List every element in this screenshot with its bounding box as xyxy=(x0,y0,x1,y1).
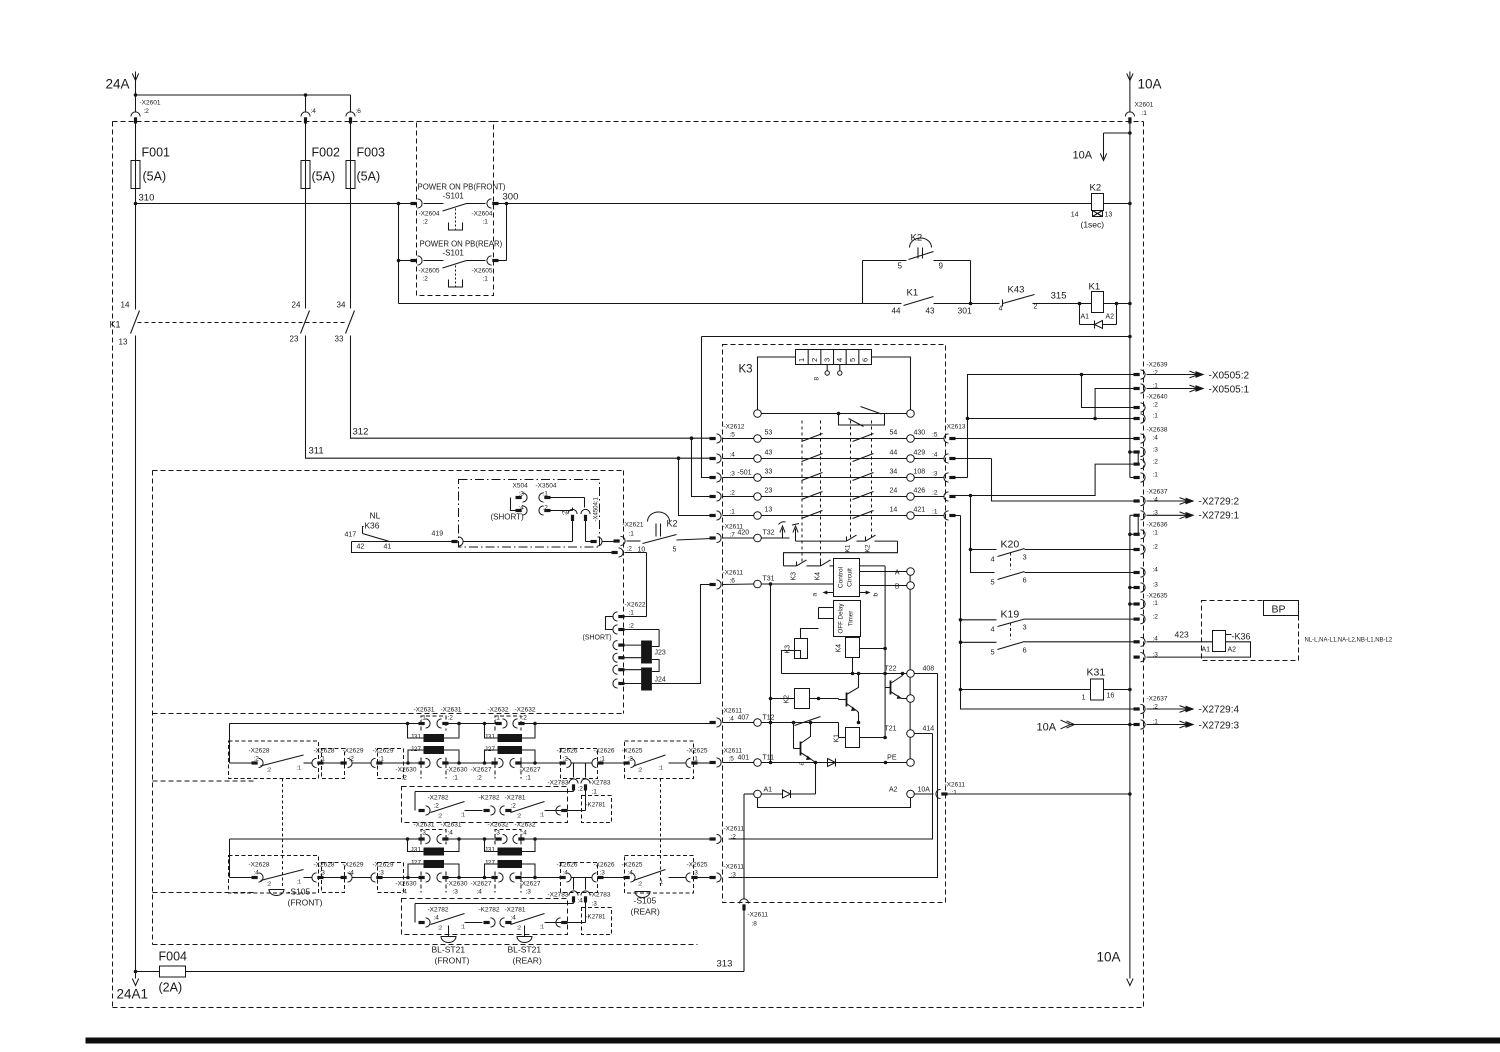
wire interlock feed upper xyxy=(415,764,583,811)
svg-text:PE: PE xyxy=(887,755,897,762)
svg-text:(1sec): (1sec) xyxy=(1081,220,1105,230)
10A branch arrow xyxy=(1073,131,1132,161)
wire to -X2639:1 / -X2640:1 xyxy=(966,389,1137,421)
svg-text::1: :1 xyxy=(483,219,489,226)
svg-text:3: 3 xyxy=(822,358,831,362)
svg-text:2: 2 xyxy=(1034,304,1038,311)
svg-text:33: 33 xyxy=(765,469,773,476)
svg-text:-X2640: -X2640 xyxy=(1147,394,1168,401)
relay contact K1 14-13 xyxy=(110,204,140,972)
svg-text::4: :4 xyxy=(563,870,569,877)
off delay timer box xyxy=(819,601,861,637)
main right bus lower xyxy=(1129,515,1131,978)
svg-text:420: 420 xyxy=(738,530,750,537)
connector X2601:4 xyxy=(301,95,316,161)
svg-text:6: 6 xyxy=(860,358,869,362)
wire row D rear xyxy=(230,876,712,880)
svg-text::1: :1 xyxy=(461,925,466,931)
svg-text:6: 6 xyxy=(1023,646,1027,655)
contact -X2781 -K2781 lower xyxy=(505,907,612,935)
svg-text::2: :2 xyxy=(434,803,440,810)
svg-text:315: 315 xyxy=(1051,291,1067,302)
terminal T11 wire 401 xyxy=(738,755,907,767)
connector -X4504 pair xyxy=(563,496,600,541)
svg-text::3: :3 xyxy=(379,870,385,877)
K3 terminal strip 1-6 xyxy=(758,350,911,410)
connector -X2611:3 xyxy=(710,864,745,883)
relay contact K20 xyxy=(991,539,1137,587)
svg-text:(FRONT): (FRONT) xyxy=(435,956,470,966)
svg-text:301: 301 xyxy=(958,306,972,316)
relay contact K1 44-43 xyxy=(863,288,1000,316)
svg-text:-X2625: -X2625 xyxy=(687,862,708,869)
wire short plug run xyxy=(452,537,615,546)
connector -X2631:2 xyxy=(437,707,462,729)
connector -X2632:4 xyxy=(513,822,536,844)
connector -X2626:4 xyxy=(557,862,578,883)
svg-text::2: :2 xyxy=(730,490,736,497)
connector X2601:6 xyxy=(346,95,361,161)
svg-text:-X2782: -X2782 xyxy=(428,907,449,914)
svg-text:T21: T21 xyxy=(884,726,896,733)
svg-text:-X2604: -X2604 xyxy=(472,211,493,218)
svg-text:-X2601: -X2601 xyxy=(140,100,161,107)
svg-text::8: :8 xyxy=(752,921,758,928)
svg-text:-X2611: -X2611 xyxy=(724,826,745,833)
svg-text::6: :6 xyxy=(730,578,736,585)
contact -X2782 -K2782 upper xyxy=(419,795,512,820)
svg-text:Timer: Timer xyxy=(848,611,855,627)
relay contact K1 24-23 xyxy=(290,301,310,344)
svg-text:-X2783: -X2783 xyxy=(548,892,569,899)
svg-text:(5A): (5A) xyxy=(312,170,336,184)
svg-text:4: 4 xyxy=(835,358,844,362)
svg-text:T22: T22 xyxy=(884,666,896,673)
svg-text:14: 14 xyxy=(1071,212,1079,219)
svg-text:44: 44 xyxy=(890,450,898,457)
svg-text:-X2613: -X2613 xyxy=(945,424,966,431)
switch -X2625 front xyxy=(622,748,708,774)
svg-text::1: :1 xyxy=(592,789,598,796)
svg-text:5: 5 xyxy=(991,578,995,587)
svg-text::4: :4 xyxy=(511,915,517,922)
connector -X2640:2 xyxy=(1134,394,1168,413)
wire arrow 4 off-sheet xyxy=(792,524,799,542)
connector -X2611:4 xyxy=(710,708,754,728)
svg-text:Control: Control xyxy=(838,566,845,588)
svg-text:33: 33 xyxy=(335,335,344,344)
svg-text::4: :4 xyxy=(1153,497,1159,504)
svg-text:b: b xyxy=(873,593,880,597)
svg-text:6: 6 xyxy=(1023,576,1027,585)
K3 contact 23-24 wire 426 xyxy=(754,488,945,501)
K3 contact 53-54 wire 430 xyxy=(754,430,945,443)
svg-text::1: :1 xyxy=(297,880,302,886)
svg-text:-X2639: -X2639 xyxy=(1147,362,1168,369)
svg-text:A1: A1 xyxy=(764,787,773,794)
svg-text:F002: F002 xyxy=(312,146,341,160)
svg-text::2: :2 xyxy=(1153,402,1159,409)
connector -X2636:2 xyxy=(1134,544,1159,555)
fuse F002 (5A) xyxy=(301,146,340,309)
connector -X2612:2 xyxy=(710,490,754,502)
diode block J27 rear 2 xyxy=(485,860,536,878)
connector pair -X2627 below J rear 2 xyxy=(471,873,541,896)
svg-text:-K2782: -K2782 xyxy=(479,795,500,802)
horn -S105 REAR xyxy=(631,779,661,917)
svg-text::2: :2 xyxy=(517,814,522,820)
connector pair -X2627 below J front 2 xyxy=(471,758,541,781)
svg-text:34: 34 xyxy=(337,301,346,310)
svg-text::4: :4 xyxy=(311,108,317,115)
svg-text:K2: K2 xyxy=(1090,183,1102,194)
svg-text:T11: T11 xyxy=(763,755,775,762)
terminal T22 wire 408 xyxy=(782,666,935,678)
svg-text::3: :3 xyxy=(1153,652,1159,659)
svg-text::2: :2 xyxy=(438,926,443,932)
transistor internal upper xyxy=(885,672,914,703)
svg-text:-X2627: -X2627 xyxy=(471,881,492,888)
svg-text::1: :1 xyxy=(379,756,385,763)
svg-text:(REAR): (REAR) xyxy=(631,907,660,917)
diode block J31 rear 1 xyxy=(408,839,460,856)
pushbutton K2 mushroom xyxy=(638,512,712,554)
svg-text:10A: 10A xyxy=(1037,722,1057,734)
connector -X2639:1 to X0505:1 xyxy=(1134,383,1250,396)
svg-text::2: :2 xyxy=(517,926,522,932)
svg-text:-X2781: -X2781 xyxy=(505,907,526,914)
wire 429 to -X2637:4 xyxy=(955,459,1240,508)
svg-text:-X0505:1: -X0505:1 xyxy=(1209,385,1250,396)
svg-text:417: 417 xyxy=(345,532,357,539)
svg-text:-X2638: -X2638 xyxy=(1147,427,1168,434)
svg-text::2: :2 xyxy=(932,490,938,497)
svg-text:-X2627: -X2627 xyxy=(471,767,492,774)
wire control circuit to B wrap xyxy=(860,566,886,738)
svg-text::1: :1 xyxy=(1153,530,1159,537)
svg-text:K4: K4 xyxy=(815,572,822,581)
svg-text::3: :3 xyxy=(453,889,459,896)
svg-text::2: :2 xyxy=(254,756,260,763)
connector X2601:1 xyxy=(1125,95,1153,124)
svg-text:POWER ON PB(REAR): POWER ON PB(REAR) xyxy=(420,240,503,249)
svg-text::1: :1 xyxy=(730,509,736,516)
svg-text::1: :1 xyxy=(1142,110,1148,117)
inner dashed box 2 xyxy=(153,781,698,945)
connector -X2637:2 to X2729:4 xyxy=(1134,696,1240,716)
svg-text:K19: K19 xyxy=(1001,609,1020,621)
svg-text:24A: 24A xyxy=(106,77,130,92)
dash-dot box short plug xyxy=(459,480,600,548)
connector -X2622:1 xyxy=(606,602,647,630)
connector pair X504:4 X3504:2 xyxy=(511,498,573,516)
relay coil K3 internal xyxy=(782,629,819,674)
fuse F003 (5A) xyxy=(346,146,385,309)
svg-text:13: 13 xyxy=(765,507,773,514)
svg-text:(SHORT): (SHORT) xyxy=(491,513,525,522)
svg-text:A2: A2 xyxy=(1228,647,1237,654)
wire 108 to -X2639:2 xyxy=(955,373,1137,478)
svg-text::4: :4 xyxy=(578,898,584,905)
svg-text:-X2605: -X2605 xyxy=(472,268,493,275)
svg-text::5: :5 xyxy=(729,756,735,763)
svg-text:10A: 10A xyxy=(1073,150,1093,162)
connector -X2636:4 xyxy=(1134,567,1159,578)
dashed box power-on pushbuttons xyxy=(417,122,494,296)
connector -X2612:1 xyxy=(710,509,754,521)
svg-text:-S101: -S101 xyxy=(443,249,465,258)
svg-text::1: :1 xyxy=(932,509,938,516)
svg-text:401: 401 xyxy=(738,755,750,762)
svg-text::2: :2 xyxy=(423,276,429,283)
svg-text::3: :3 xyxy=(592,901,598,908)
svg-text:X504: X504 xyxy=(513,483,529,490)
svg-text:414: 414 xyxy=(923,726,935,733)
fuse F004 (2A) wire 313 xyxy=(134,950,744,995)
svg-text::4: :4 xyxy=(1153,435,1159,442)
transistor internal b xyxy=(839,672,861,725)
bell BL-ST21 FRONT xyxy=(432,926,470,966)
svg-text:-X2631: -X2631 xyxy=(414,822,435,829)
connector -X2628:1 xyxy=(312,748,335,768)
wire top feeder xyxy=(134,93,351,97)
pushbutton -S101 front xyxy=(397,183,507,231)
dashed housing boxes row B xyxy=(229,716,694,779)
svg-text::2: :2 xyxy=(731,834,737,841)
svg-text:24A1: 24A1 xyxy=(117,987,149,1002)
svg-text:-X2631: -X2631 xyxy=(441,822,462,829)
svg-text:T32: T32 xyxy=(763,530,775,537)
svg-text:-X2630: -X2630 xyxy=(396,881,417,888)
wire T22 to X2611:3 xyxy=(729,674,938,878)
svg-text:K1: K1 xyxy=(845,544,852,552)
relay coil K2 (1sec) xyxy=(1071,183,1132,230)
K3 contact 43-44 wire 429 xyxy=(754,450,945,463)
svg-text::4: :4 xyxy=(434,915,440,922)
svg-text:NL: NL xyxy=(370,511,381,521)
fuse F001 (5A) xyxy=(131,146,170,204)
svg-text:10A: 10A xyxy=(1138,77,1162,92)
connector -X2635:1 bus tap xyxy=(1128,593,1168,609)
svg-text::1: :1 xyxy=(952,790,958,797)
svg-text:J31: J31 xyxy=(411,847,422,854)
outer cabinet dashed boundary xyxy=(113,122,1144,1008)
svg-text:-X2630: -X2630 xyxy=(447,881,468,888)
svg-text:-X2630: -X2630 xyxy=(447,767,468,774)
diode block J31 rear 2 xyxy=(485,839,536,856)
svg-text:8: 8 xyxy=(814,377,821,381)
svg-text::2: :2 xyxy=(627,546,633,553)
svg-text::4: :4 xyxy=(522,830,528,837)
control circuit box xyxy=(834,559,860,597)
svg-text:-X2729:1: -X2729:1 xyxy=(1199,511,1240,522)
K3 contact 33-34 wire 108 xyxy=(754,469,945,482)
terminal A xyxy=(860,568,915,577)
svg-text::1: :1 xyxy=(461,813,466,819)
connector -X2626:3 xyxy=(592,862,615,883)
svg-text:POWER ON PB(FRONT): POWER ON PB(FRONT) xyxy=(418,183,506,192)
svg-text:23: 23 xyxy=(765,488,773,495)
svg-text:9: 9 xyxy=(939,262,944,271)
diode block J27 front 2 xyxy=(485,746,536,763)
svg-text::2: :2 xyxy=(267,882,272,888)
svg-text:-X4504:1: -X4504:1 xyxy=(594,496,600,521)
svg-text:1: 1 xyxy=(1082,695,1086,702)
contact -X2782 -K2782 lower xyxy=(419,907,512,932)
svg-text:-X2604: -X2604 xyxy=(419,211,440,218)
svg-text:K3: K3 xyxy=(739,364,753,376)
svg-text:F004: F004 xyxy=(159,950,188,964)
svg-text:-X2612: -X2612 xyxy=(724,424,745,431)
svg-text:K1: K1 xyxy=(907,288,919,299)
svg-text:K1: K1 xyxy=(110,320,121,330)
svg-text::1: :1 xyxy=(1153,413,1159,420)
svg-text:10A: 10A xyxy=(1097,950,1121,965)
connector -X2626:2 xyxy=(557,748,578,768)
svg-text:(SHORT): (SHORT) xyxy=(583,635,612,642)
wire to -X2640:2 xyxy=(1082,375,1137,408)
svg-text:A1: A1 xyxy=(1081,314,1090,321)
connector -X2632:1 xyxy=(488,707,509,729)
svg-text::1: :1 xyxy=(1153,600,1159,607)
connector -X2601:2 xyxy=(131,95,161,161)
contact -X2781 -K2781 upper xyxy=(505,795,612,823)
svg-text:(2A): (2A) xyxy=(159,981,183,995)
svg-text:J27: J27 xyxy=(411,860,422,867)
svg-text:-S105: -S105 xyxy=(634,896,657,906)
relay contact K1 34-33 xyxy=(335,301,355,344)
svg-text::1: :1 xyxy=(1153,472,1159,479)
svg-text::5: :5 xyxy=(932,432,938,439)
svg-text:-X2632: -X2632 xyxy=(488,707,509,714)
svg-text::4: :4 xyxy=(628,870,634,877)
svg-text::2: :2 xyxy=(349,756,355,763)
svg-text:-X2611: -X2611 xyxy=(722,708,743,715)
svg-text:5: 5 xyxy=(848,358,857,362)
svg-text::3: :3 xyxy=(932,471,938,478)
svg-text::1: :1 xyxy=(540,813,545,819)
svg-text:-X2637: -X2637 xyxy=(1147,696,1168,703)
switch K43 xyxy=(999,285,1080,313)
svg-text:A2: A2 xyxy=(889,787,898,794)
svg-text:-X2783: -X2783 xyxy=(590,892,611,899)
svg-text:-X2729:3: -X2729:3 xyxy=(1199,721,1240,732)
wire interlock return lower xyxy=(581,878,611,923)
svg-text:J31: J31 xyxy=(485,847,496,854)
wire 311 xyxy=(306,336,712,516)
svg-text::1: :1 xyxy=(297,766,302,772)
svg-text::4: :4 xyxy=(448,830,454,837)
svg-text:313: 313 xyxy=(717,959,733,970)
svg-text:1: 1 xyxy=(797,358,806,362)
svg-text::2: :2 xyxy=(1153,544,1159,551)
horn -S105 FRONT xyxy=(269,779,323,908)
svg-text:-X2621: -X2621 xyxy=(623,522,644,529)
connector -X2613:3 xyxy=(932,471,955,483)
svg-text::3: :3 xyxy=(600,870,606,877)
svg-text:A1: A1 xyxy=(1202,647,1211,654)
svg-text:34: 34 xyxy=(890,469,898,476)
connector -X2612:3 xyxy=(710,470,754,483)
svg-text:OFF Delay: OFF Delay xyxy=(838,603,845,634)
svg-text::1: :1 xyxy=(320,756,326,763)
wire 312 xyxy=(351,336,712,497)
connector -X2639:2 to X0505:2 xyxy=(1134,362,1250,382)
svg-text:24: 24 xyxy=(292,301,301,310)
svg-text::3: :3 xyxy=(320,870,326,877)
svg-text:-501: -501 xyxy=(738,470,752,477)
svg-text:14: 14 xyxy=(890,507,898,514)
svg-text::7: :7 xyxy=(730,532,736,539)
svg-text:53: 53 xyxy=(765,430,773,437)
svg-text:430: 430 xyxy=(914,430,926,437)
svg-text:5: 5 xyxy=(898,262,903,271)
svg-text:3: 3 xyxy=(1023,553,1027,562)
connector -X2613:2 xyxy=(932,490,955,502)
24A1 outgoing arrow xyxy=(117,972,149,1002)
connector -X2635:4 wire 423 xyxy=(1134,630,1213,647)
connector pair -X2630 below J front 1 xyxy=(396,758,468,781)
svg-text:-K36: -K36 xyxy=(362,521,380,531)
relay coil K4 internal xyxy=(836,637,887,676)
relay coil K1 with A1 A2 xyxy=(1051,282,1132,321)
svg-text:5: 5 xyxy=(673,547,677,554)
connector -X2629:2 xyxy=(341,748,364,768)
svg-text:-X2628: -X2628 xyxy=(249,748,270,755)
K3 strip pins 7 8 xyxy=(814,365,843,381)
relay coil K36 in BP xyxy=(1134,601,1299,662)
connector -X2611:5 xyxy=(710,748,754,768)
svg-text::2: :2 xyxy=(628,756,634,763)
10A outgoing bottom right xyxy=(1097,950,1134,986)
svg-text:54: 54 xyxy=(890,430,898,437)
wire row A front xyxy=(230,722,712,763)
switch -X2628:4 rear xyxy=(249,862,304,888)
svg-text:421: 421 xyxy=(914,507,926,514)
svg-text:Circuit: Circuit xyxy=(847,568,854,587)
pushbutton K2 maintained xyxy=(863,233,971,304)
K3 aux contact row xyxy=(754,407,915,427)
svg-text::1: :1 xyxy=(453,775,459,782)
wire internal terminal bus xyxy=(909,572,911,763)
svg-text::4: :4 xyxy=(932,452,938,459)
connector -X2622:2 xyxy=(613,623,659,635)
wire A1-A2 bottom loop xyxy=(758,798,911,808)
svg-text::2: :2 xyxy=(448,715,454,722)
terminal A2 wire 10A xyxy=(889,787,934,798)
svg-text:-X2637: -X2637 xyxy=(1147,489,1168,496)
svg-text:-K2781: -K2781 xyxy=(586,914,607,921)
svg-text:A: A xyxy=(895,570,900,577)
svg-text:K1: K1 xyxy=(834,734,841,743)
diode block J31 front 2 xyxy=(485,724,536,743)
svg-text:-X2611: -X2611 xyxy=(724,864,745,871)
connector -X2637:1 to X2729:3 xyxy=(1134,719,1240,732)
svg-text:BL-ST21: BL-ST21 xyxy=(508,945,542,955)
connector pair X504:3 X3504:1 xyxy=(513,483,585,503)
svg-text:K2: K2 xyxy=(784,695,791,704)
svg-text:X2601: X2601 xyxy=(1135,102,1154,109)
svg-text::4: :4 xyxy=(730,452,736,459)
connector -X2621:1 xyxy=(614,522,644,546)
svg-text:BL-ST21: BL-ST21 xyxy=(432,945,466,955)
connector -X2611:8 xyxy=(739,794,768,972)
svg-text:300: 300 xyxy=(503,192,519,203)
svg-text:A2: A2 xyxy=(1106,314,1115,321)
svg-text:K3: K3 xyxy=(791,572,798,581)
svg-text:NL-L,NA-L1,NA-L2,NB-L1,NB-L2: NL-L,NA-L1,NA-L2,NB-L1,NB-L2 xyxy=(1305,638,1393,644)
svg-text:K31: K31 xyxy=(1087,667,1106,679)
